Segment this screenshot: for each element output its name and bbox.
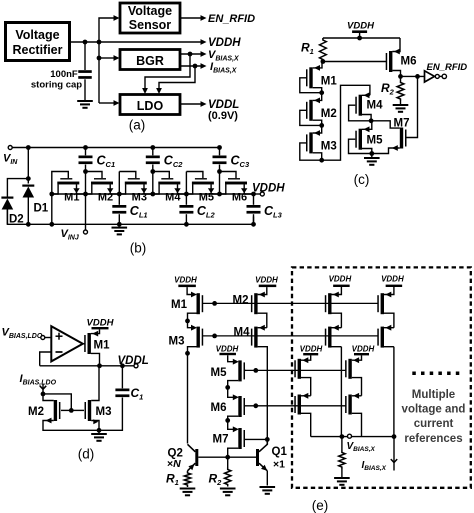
VDDH rail M5 (e) <box>216 345 239 362</box>
resistor R2 (c) <box>397 76 404 101</box>
svg-text:M2: M2 <box>321 108 337 120</box>
dashed box multiple references <box>292 267 471 487</box>
diode D1 <box>22 145 34 227</box>
inverter U1 <box>425 71 447 82</box>
wire top rail VIN <box>12 147 219 149</box>
svg-text:M3: M3 <box>132 191 147 203</box>
ground Q1 <box>260 486 276 488</box>
svg-text:VDDH: VDDH <box>347 21 375 32</box>
resistor VBIAS (e) <box>339 437 345 469</box>
svg-text:M1: M1 <box>171 299 188 311</box>
resistor R2 (e) <box>225 457 231 486</box>
svg-text:M3: M3 <box>169 336 185 348</box>
transistor M4 (e) <box>251 325 267 440</box>
mirror NMOS column B (e) <box>0 0 1 1</box>
svg-text:(0.9V): (0.9V) <box>208 110 238 122</box>
svg-text:VDDH: VDDH <box>216 345 239 354</box>
svg-text:×1: ×1 <box>273 459 285 471</box>
svg-text:VDDL: VDDL <box>208 99 239 111</box>
svg-text:storing cap: storing cap <box>31 80 82 91</box>
op-amp A1 <box>51 326 83 361</box>
svg-text:M2: M2 <box>28 406 44 418</box>
wire EN_RFID output <box>180 15 207 21</box>
transistor M4 (c) <box>349 92 374 123</box>
svg-text:M1: M1 <box>94 339 111 351</box>
ground R2 (e) <box>220 488 236 490</box>
mirror NMOS lower <box>294 393 310 437</box>
label VDDL (0.9V) <box>208 99 239 122</box>
svg-text:D1: D1 <box>34 203 49 215</box>
svg-text:M7: M7 <box>394 118 410 130</box>
ellipsis dots <box>412 372 459 376</box>
gate bus 1 (M1 M2 mirrors) <box>203 301 379 306</box>
mirror PMOS lower <box>377 325 394 348</box>
svg-text:VDDH: VDDH <box>208 37 241 49</box>
svg-text:(d): (d) <box>78 447 95 462</box>
capacitor CL2 <box>179 194 193 227</box>
ground (d) <box>91 428 107 442</box>
terminal VBIAS,LDO <box>2 327 52 340</box>
wire BGR to LDO feedback 1 <box>142 54 190 94</box>
wire IBIAS output <box>180 63 207 69</box>
VDDH rail (d) <box>87 317 115 329</box>
wire opamp feedback <box>40 352 52 366</box>
svg-text:Voltage: Voltage <box>15 28 59 42</box>
transistor M6 (b) <box>220 172 254 195</box>
mirror NMOS upper <box>345 355 361 395</box>
VDDH rail (c) <box>347 21 375 41</box>
ground storing cap <box>77 100 93 109</box>
capacitor CC3 <box>213 145 227 194</box>
capacitor 100nF storing cap <box>78 42 92 100</box>
ground node (c) <box>364 151 380 166</box>
block: Voltage Sensor <box>120 3 180 33</box>
transistor M5 (b) <box>186 172 219 195</box>
mirror NMOS upper <box>294 355 310 395</box>
wire node1 to bottom rail <box>49 194 54 227</box>
svg-text:EN_RFID: EN_RFID <box>208 13 255 25</box>
transistor M1 (d) <box>83 329 100 365</box>
transistor M7 (c) <box>372 128 407 154</box>
gate bus 2 (M3 M4 mirrors) <box>203 334 379 339</box>
block: BGR <box>120 50 180 70</box>
svg-text:M4: M4 <box>234 327 251 339</box>
mirror PMOS column 2 (e) <box>0 0 1 1</box>
transistor M3 (e) <box>185 321 203 356</box>
arrow IBIAS,LDO <box>40 384 46 396</box>
svg-text:EN_RFID: EN_RFID <box>427 62 468 73</box>
block: Voltage Rectifier <box>6 23 70 61</box>
svg-text:(e): (e) <box>312 498 329 513</box>
svg-text:M4: M4 <box>367 100 384 112</box>
wire rectifier output bus <box>70 40 102 45</box>
transistor M1 (b) <box>52 172 86 195</box>
transistor M1 (e) <box>185 292 203 324</box>
svg-text:current: current <box>414 418 454 430</box>
VDDH rail nmos col <box>300 344 323 355</box>
capacitor C1 (d) <box>99 366 129 431</box>
svg-text:M7: M7 <box>213 434 229 446</box>
wire M4/M5 node to M7 drain <box>371 121 400 128</box>
capacitor CC1 <box>79 145 93 194</box>
wire VDDH output <box>99 39 207 45</box>
svg-text:VDDH: VDDH <box>300 344 323 353</box>
transistor M2 (c) <box>300 93 324 128</box>
svg-text:VDDH: VDDH <box>329 275 352 284</box>
svg-text:100nF: 100nF <box>50 69 78 80</box>
EN node wire <box>398 74 424 79</box>
svg-text:M6: M6 <box>401 56 417 68</box>
part (a) block diagram <box>0 0 1 1</box>
transistor M7 (e) <box>228 420 270 457</box>
svg-text:VDDH: VDDH <box>87 317 115 328</box>
svg-text:M1: M1 <box>64 191 79 203</box>
ground R1 (e) <box>180 488 196 490</box>
VDDH rail M2 (e) <box>255 275 278 287</box>
svg-text:Voltage: Voltage <box>128 4 172 18</box>
wire col2 output down <box>393 347 395 437</box>
wire to BGR <box>97 42 120 103</box>
VDDH rail mirror col <box>381 275 404 287</box>
mirror PMOS upper <box>325 287 342 328</box>
transistor M6 (e) <box>225 387 245 422</box>
svg-text:VDDH: VDDH <box>352 344 375 353</box>
svg-text:Q1: Q1 <box>272 446 288 458</box>
VDDH rail nmos col <box>352 344 375 355</box>
diode D2 <box>1 179 28 225</box>
svg-text:Sensor: Sensor <box>129 18 172 32</box>
part (b) rectifier charge pump <box>0 0 1 1</box>
svg-text:M5: M5 <box>199 191 214 203</box>
svg-text:Rectifier: Rectifier <box>12 43 62 57</box>
svg-text:M1: M1 <box>321 75 338 87</box>
gate bus 4 (M6 mirrors) <box>244 403 346 408</box>
svg-text:(b): (b) <box>130 241 147 256</box>
svg-text:(c): (c) <box>354 172 370 187</box>
svg-text:M2: M2 <box>233 295 249 307</box>
ground VBIAS (e) <box>334 469 350 486</box>
VDDL node wire <box>40 363 138 368</box>
part (d) LDO circuit <box>0 0 1 1</box>
wire M3 bottom to M4 top rail <box>322 85 370 160</box>
gate bus 3 (M5 mirrors) <box>244 368 346 373</box>
svg-text:M5: M5 <box>211 367 228 379</box>
resistor R1 (e) <box>184 471 190 487</box>
svg-text:VDDL: VDDL <box>118 355 149 367</box>
capacitor CL3 <box>247 194 261 227</box>
transistor M4 (b) <box>153 172 187 195</box>
svg-text:VDDH: VDDH <box>252 183 285 195</box>
svg-text:M3: M3 <box>96 406 112 418</box>
svg-text:VDDH: VDDH <box>381 275 404 284</box>
mirror PMOS column 1 (e) <box>0 0 1 1</box>
svg-text:VDDH: VDDH <box>255 275 278 284</box>
transistor M1 (c) <box>300 62 324 96</box>
mirror NMOS lower <box>345 393 361 437</box>
part (e) BGR circuit <box>0 0 1 1</box>
resistor R1 (c) <box>320 38 327 62</box>
svg-text:M6: M6 <box>232 191 247 203</box>
transistor M2 (d) <box>43 394 99 430</box>
text multiple voltage and current references <box>402 389 466 445</box>
transistor M3 (c) <box>300 125 324 162</box>
label Q1 x1 <box>272 446 288 471</box>
mirror PMOS lower <box>325 325 342 348</box>
transistor M6 (c) <box>386 38 401 76</box>
transistor M5 (c) <box>349 121 372 154</box>
node line part b <box>49 192 256 197</box>
part (c) voltage sensor circuit <box>0 0 1 1</box>
BJT Q1 <box>256 439 267 485</box>
transistor M3 (d) <box>71 366 99 431</box>
svg-text:VDDH: VDDH <box>174 275 197 284</box>
block: LDO <box>120 95 180 115</box>
svg-text:LDO: LDO <box>137 99 164 113</box>
VDDH rail mirror col <box>329 275 352 287</box>
IBIAS,X current arrow <box>391 437 397 471</box>
wire VBIAS output <box>180 51 207 57</box>
svg-text:M4: M4 <box>165 191 181 203</box>
label Q2 xN <box>167 448 183 470</box>
mirror PMOS upper <box>377 287 394 328</box>
wire to LDO <box>99 100 120 106</box>
transistor M2 (e) <box>251 287 267 328</box>
VDDH rail M1 (e) <box>174 275 197 294</box>
terminal VIN <box>3 146 18 166</box>
wire VDDL output <box>180 101 207 107</box>
capacitor CL1 <box>112 194 126 227</box>
label 100nF storing cap <box>31 69 82 91</box>
wire col1 output to VBIAS node <box>340 347 342 437</box>
svg-text:M5: M5 <box>367 135 384 147</box>
transistor M5 (e) <box>225 359 245 390</box>
svg-text:M3: M3 <box>321 140 337 152</box>
svg-text:references: references <box>404 433 462 445</box>
transistor M2 (b) <box>86 172 120 195</box>
terminal VDDH (b) <box>252 183 285 197</box>
wire IBIAS to gates <box>43 394 71 411</box>
capacitor CC2 <box>146 145 160 194</box>
svg-text:×N: ×N <box>167 458 181 470</box>
ground R2 (c) <box>393 101 409 113</box>
svg-text:(a): (a) <box>129 118 146 133</box>
terminal VINJ <box>61 194 88 241</box>
svg-text:Multiple: Multiple <box>412 389 455 401</box>
svg-text:voltage and: voltage and <box>402 404 466 416</box>
BJT Q2 <box>188 444 199 471</box>
ground part b <box>112 227 128 236</box>
wire top (c) <box>323 37 400 39</box>
svg-text:BGR: BGR <box>136 54 164 68</box>
wire EN to M7 gate <box>407 76 418 137</box>
VBIAS,X node wire <box>311 434 397 439</box>
transistor M3 (b) <box>119 172 153 195</box>
wire M3 drain to Q2 collector <box>187 353 189 443</box>
node A wire to M6 gate <box>321 59 387 64</box>
wire bottom rail ground <box>7 206 253 225</box>
base bus wire <box>198 455 256 460</box>
mirror NMOS column A (e) <box>0 0 1 1</box>
svg-text:D2: D2 <box>9 214 24 226</box>
wire BGR to LDO feedback 2 <box>156 66 195 94</box>
wire to voltage sensor <box>99 15 120 42</box>
svg-text:M2: M2 <box>98 191 113 203</box>
svg-text:M6: M6 <box>211 402 227 414</box>
